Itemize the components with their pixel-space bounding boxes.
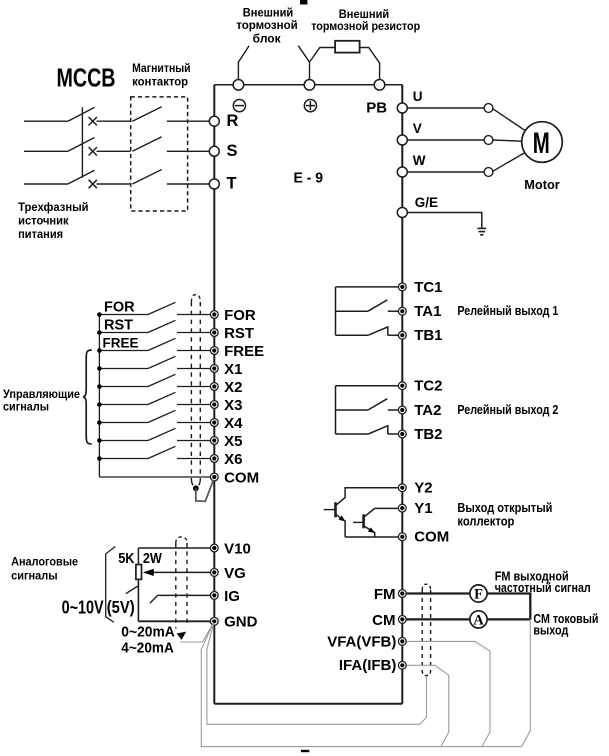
wire X4 row	[99, 422, 210, 424]
wire motor lead V diagonal	[493, 140, 522, 141]
svg-text:TA1: TA1	[414, 303, 441, 320]
brace control signals group	[83, 350, 92, 444]
terminal X3	[210, 401, 218, 409]
terminal T	[209, 179, 219, 189]
label FM output frequency signal	[495, 570, 591, 596]
svg-text:U: U	[413, 89, 423, 104]
wire X6 row	[99, 458, 210, 460]
label TC1 terminal	[414, 279, 442, 296]
svg-text:коллектор: коллектор	[457, 515, 514, 529]
svg-text:X6: X6	[224, 451, 242, 468]
wire A meter to CM	[402, 618, 530, 620]
transistor Q2 (Y1 output)	[353, 508, 398, 537]
label X3 terminal	[224, 397, 242, 414]
breaker pole R trip cross mark	[89, 117, 97, 125]
wire X3 row	[99, 404, 210, 406]
label FOR wire tag	[104, 299, 135, 315]
label RST terminal	[224, 325, 254, 342]
svg-text:FREE: FREE	[103, 335, 139, 350]
svg-text:X4: X4	[224, 415, 243, 432]
wire V10 to potentiometer	[138, 548, 210, 565]
label U	[413, 89, 423, 104]
wire brake switch blade at (+) terminal	[298, 46, 309, 80]
shield of output cable (dashed)	[422, 584, 430, 675]
arrow analog shield drain	[177, 632, 187, 640]
transistor Q1 (Y2 output)	[324, 488, 399, 537]
svg-text:RST: RST	[104, 317, 133, 333]
wire GND to analog shield drain	[180, 623, 213, 642]
terminal RST	[210, 329, 218, 337]
terminal S	[209, 146, 219, 156]
wire G/E ground lead	[402, 213, 482, 228]
svg-text:FM: FM	[374, 586, 396, 603]
svg-text:TB2: TB2	[414, 426, 442, 443]
svg-text:E - 9: E - 9	[294, 170, 324, 186]
wire phase R to terminal R	[167, 120, 209, 122]
relay relay 1 contacts wiring	[336, 287, 399, 335]
svg-text:S: S	[227, 142, 238, 160]
terminal TC2	[398, 382, 406, 390]
svg-text:IG: IG	[224, 588, 240, 605]
label Motor	[524, 177, 560, 192]
svg-text:5K: 5K	[118, 550, 134, 567]
wire right bus of inverter E-9	[401, 85, 403, 704]
svg-text:блок: блок	[253, 33, 281, 45]
switch X1 blade	[148, 356, 176, 368]
breaker mechanical tie bar	[81, 107, 83, 177]
breaker pole R blade	[68, 107, 95, 121]
svg-text:VFA(VFB): VFA(VFB)	[327, 633, 396, 650]
label CM current output	[533, 612, 598, 637]
svg-text:V: V	[413, 121, 422, 136]
svg-text:контактор: контактор	[132, 77, 188, 89]
wire top bus (DC link) of inverter	[214, 84, 402, 86]
symbol plus (+) polarity	[304, 100, 316, 112]
label X6 terminal	[224, 451, 242, 468]
terminal motor lead V circle	[484, 136, 493, 145]
svg-text:TC2: TC2	[414, 378, 442, 395]
label IFA(IFB) terminal	[339, 657, 397, 674]
wire X2 row	[99, 386, 210, 388]
svg-text:X3: X3	[224, 397, 242, 414]
mark small dash bottom center	[301, 750, 309, 752]
shield of control cable (dashed)	[191, 295, 200, 488]
svg-text:PB: PB	[366, 100, 387, 117]
terminal IG	[210, 592, 218, 600]
wire output W	[402, 171, 484, 173]
svg-text:Y2: Y2	[414, 480, 432, 497]
junction dot FREE on rail	[97, 348, 102, 353]
potentiometer 5K 2W body	[136, 565, 142, 580]
junction dot RST on rail	[97, 330, 102, 335]
terminal COM (open collector)	[398, 533, 406, 541]
svg-text:Релейный выход 1: Релейный выход 1	[457, 304, 558, 318]
svg-text:M: M	[533, 127, 550, 160]
svg-text:FOR: FOR	[104, 299, 135, 315]
terminal motor lead W circle	[484, 168, 493, 177]
terminal Y1 (open collector)	[398, 504, 406, 512]
meter A (ammeter)	[470, 611, 487, 629]
svg-text:источник: источник	[18, 215, 69, 227]
terminal R	[209, 116, 219, 126]
junction dot X3 on rail	[97, 402, 102, 407]
terminal TA1	[398, 307, 406, 315]
wire COM emitter line	[345, 536, 398, 538]
label X1 terminal	[224, 361, 242, 378]
terminal X4	[210, 419, 218, 427]
breaker pole S blade	[68, 138, 95, 152]
svg-text:A: A	[473, 613, 484, 629]
terminal TC1	[398, 283, 406, 291]
wire bottom edge of inverter box	[214, 703, 402, 705]
wire phase S input line	[24, 150, 68, 152]
svg-text:X1: X1	[224, 361, 242, 378]
svg-text:FREE: FREE	[224, 343, 264, 360]
junction dot X1 on rail	[97, 366, 102, 371]
wire RST row	[99, 332, 210, 334]
label VG terminal	[224, 565, 246, 582]
bracket analog group	[106, 547, 116, 623]
terminal (+) DC bus	[304, 80, 315, 91]
wire control shield drain to COM	[196, 480, 214, 502]
terminal Y2 (open collector)	[398, 484, 406, 492]
terminal VG	[210, 569, 218, 577]
switch FREE blade	[148, 338, 176, 350]
svg-text:F: F	[474, 587, 483, 603]
label 4~20mA	[121, 640, 174, 656]
wire inner return loop GND to output shield	[207, 623, 427, 725]
cropped mark top center	[300, 0, 307, 5]
svg-text:V10: V10	[224, 540, 251, 557]
wire phase R input line	[24, 120, 68, 122]
terminal COM (control)	[210, 473, 218, 481]
svg-text:W: W	[413, 153, 426, 168]
meter F (frequency)	[470, 585, 487, 603]
label FREE wire tag	[103, 335, 139, 350]
wire phase S to terminal S	[167, 150, 209, 152]
terminal motor lead U circle	[484, 104, 493, 113]
label RST wire tag	[104, 317, 133, 333]
terminal TA2	[398, 406, 406, 414]
svg-text:(5V): (5V)	[107, 597, 135, 617]
svg-text:TC1: TC1	[414, 279, 442, 296]
svg-text:MCCB: MCCB	[57, 65, 116, 93]
svg-text:Motor: Motor	[524, 177, 560, 192]
svg-text:X2: X2	[224, 379, 242, 396]
symbol minus (-) polarity	[233, 100, 245, 112]
breaker pole T trip cross mark	[89, 180, 97, 188]
terminal V on bus	[397, 135, 407, 145]
switch FOR blade	[148, 302, 176, 314]
label S	[227, 142, 238, 160]
shield of analog cable (dashed)	[176, 537, 187, 629]
svg-text:выход: выход	[533, 624, 568, 638]
label TB1 terminal	[414, 327, 442, 344]
label FREE terminal	[224, 343, 264, 360]
wire motor lead W diagonal	[493, 153, 525, 172]
svg-text:Y1: Y1	[414, 500, 432, 517]
svg-text:COM: COM	[224, 469, 259, 486]
junction dot FOR on rail	[97, 312, 102, 317]
terminal GND	[210, 617, 218, 625]
junction dot control shield drain	[193, 485, 199, 491]
label analog signals	[11, 557, 78, 583]
svg-text:G/E: G/E	[415, 195, 438, 210]
svg-text:RST: RST	[224, 325, 254, 342]
terminal X5	[210, 437, 218, 445]
wire outer return loop GND common	[201, 623, 521, 747]
terminal V10	[210, 544, 218, 552]
label relay output 1	[457, 304, 558, 318]
switch X6 blade	[148, 446, 176, 458]
label TC2 terminal	[414, 378, 442, 395]
wire phase T to terminal T	[167, 183, 209, 185]
wire output V	[402, 139, 484, 141]
label G/E	[415, 195, 438, 210]
wire phase T input line	[24, 183, 68, 185]
svg-text:питания: питания	[18, 229, 63, 241]
label TA1 terminal	[414, 303, 441, 320]
wire F meter to corner	[487, 594, 530, 620]
terminal FOR	[210, 311, 218, 319]
label COM terminal	[224, 469, 259, 486]
svg-text:0~10V: 0~10V	[62, 596, 105, 617]
svg-text:TB1: TB1	[414, 327, 442, 344]
wire selector blade near potentiometer	[126, 586, 138, 594]
svg-text:сигналы: сигналы	[3, 402, 49, 414]
terminal TB1	[398, 331, 406, 339]
junction dot X4 on rail	[97, 420, 102, 425]
label 2W	[143, 550, 163, 567]
label 0~20mA	[121, 624, 175, 640]
wire FREE row	[99, 350, 210, 352]
label FM terminal	[374, 586, 396, 603]
breaker pole S trip cross mark	[89, 147, 97, 155]
label VFA(VFB) terminal	[327, 633, 396, 650]
junction dot X5 on rail	[97, 438, 102, 443]
svg-text:CM: CM	[372, 612, 395, 629]
wire left bus of inverter E-9	[213, 85, 215, 704]
resistor brake resistor	[335, 41, 360, 53]
svg-text:TA2: TA2	[414, 402, 441, 419]
terminal G/E	[397, 208, 407, 218]
svg-text:Аналоговые: Аналоговые	[11, 557, 78, 569]
label GND terminal	[224, 614, 258, 631]
svg-text:Управляющие: Управляющие	[3, 389, 80, 401]
svg-text:R: R	[227, 112, 239, 130]
wire brake resistor left lead	[310, 48, 336, 63]
svg-text:2W: 2W	[143, 550, 163, 567]
svg-text:частотный сигнал: частотный сигнал	[495, 581, 591, 595]
label TB2 terminal	[414, 426, 442, 443]
label 5K	[118, 550, 134, 567]
label TA2 terminal	[414, 402, 441, 419]
switch X5 blade	[148, 428, 176, 440]
svg-text:тормозной резистор: тормозной резистор	[311, 21, 420, 33]
terminal TB2	[398, 430, 406, 438]
svg-text:GND: GND	[224, 614, 258, 631]
terminal PB brake	[374, 80, 385, 91]
label V10 terminal	[224, 540, 251, 557]
terminal FREE	[210, 347, 218, 355]
svg-text:VG: VG	[224, 565, 246, 582]
wire FOR row	[99, 314, 210, 316]
svg-text:Трехфазный: Трехфазный	[18, 202, 89, 214]
switch X4 blade	[148, 410, 176, 422]
contactor pole R blade	[132, 107, 161, 122]
svg-text:сигналы: сигналы	[11, 571, 58, 583]
terminal IFA(IFB)	[398, 661, 406, 669]
terminal U on bus	[397, 103, 407, 113]
wire phase R mid segment	[97, 120, 131, 122]
switch RST blade	[148, 320, 176, 332]
terminal (-) DC bus	[233, 80, 244, 91]
svg-text:Выход открытый: Выход открытый	[457, 501, 552, 515]
wire meter loop drain to bottom	[522, 619, 531, 746]
junction dot X6 on rail	[97, 456, 102, 461]
label IG terminal	[224, 588, 240, 605]
wire COM row to terminal COM	[99, 476, 210, 478]
svg-text:Магнитный: Магнитный	[132, 63, 191, 75]
svg-text:Внешний: Внешний	[243, 7, 294, 19]
terminal W on bus	[397, 167, 407, 177]
label Y1 terminal	[414, 500, 432, 517]
label R	[227, 112, 239, 130]
label X2 terminal	[224, 379, 242, 396]
terminal X2	[210, 383, 218, 391]
svg-text:0~20mA: 0~20mA	[121, 624, 175, 640]
svg-text:Внешний: Внешний	[339, 9, 390, 21]
wire IG input with open blade	[150, 595, 211, 603]
wire brake switch blade at (-) terminal	[238, 46, 249, 80]
label relay output 2	[457, 403, 558, 417]
switch X2 blade	[148, 374, 176, 386]
terminal FM	[398, 590, 406, 598]
terminal X6	[210, 455, 218, 463]
label COM terminal	[414, 529, 449, 546]
svg-text:COM: COM	[414, 529, 449, 546]
label V	[413, 121, 422, 136]
svg-text:Релейный выход 2: Релейный выход 2	[457, 403, 558, 417]
terminal X1	[210, 365, 218, 373]
label X4 terminal	[224, 415, 243, 432]
switch X3 blade	[148, 392, 176, 404]
label external brake resistor	[311, 9, 420, 33]
contactor pole T blade	[132, 170, 161, 185]
label Y2 terminal	[414, 480, 432, 497]
contactor pole S blade	[132, 137, 161, 152]
label E - 9 inverter	[294, 170, 324, 186]
wire X5 row	[99, 440, 210, 442]
label 0~10V (5V)	[62, 596, 135, 617]
wire common rail of control switches	[98, 315, 100, 478]
label FOR terminal	[224, 307, 256, 324]
label magnetic contactor	[132, 63, 191, 89]
label X5 terminal	[224, 433, 242, 450]
ground symbol	[477, 228, 486, 234]
label open collector output	[457, 501, 552, 529]
svg-text:X5: X5	[224, 433, 242, 450]
label MCCB breaker	[57, 65, 116, 93]
label external brake block	[236, 7, 298, 45]
wire VFA(VFB) feedback	[407, 641, 491, 746]
svg-text:IFA(IFB): IFA(IFB)	[339, 657, 397, 674]
wire output U	[402, 107, 484, 109]
motor M1	[522, 122, 563, 163]
wire motor lead U diagonal	[493, 109, 526, 131]
label T	[227, 175, 237, 193]
svg-text:FOR: FOR	[224, 307, 256, 324]
wire potentiometer bottom to GND	[138, 579, 210, 621]
label control signals	[3, 389, 80, 414]
label CM terminal	[372, 612, 395, 629]
svg-text:4~20mA: 4~20mA	[121, 640, 174, 656]
wire phase S mid segment	[97, 150, 131, 152]
junction dot X2 on rail	[97, 384, 102, 389]
breaker pole T blade	[68, 170, 95, 184]
relay relay 2 contacts wiring	[336, 386, 399, 434]
svg-text:T: T	[227, 175, 237, 193]
wire brake resistor right lead to PB	[360, 48, 380, 80]
contactor K1 dashed box	[131, 97, 188, 211]
wire VG wiper with arrow	[143, 569, 211, 576]
wire FM to frequency meter	[402, 592, 470, 594]
wire IFA(IFB) feedback	[407, 665, 449, 746]
wire X1 row	[99, 368, 210, 370]
wire phase T mid segment	[97, 183, 131, 185]
label W	[413, 153, 426, 168]
svg-text:тормозной: тормозной	[236, 20, 298, 32]
terminal CM	[398, 616, 406, 624]
label PB terminal	[366, 100, 387, 117]
label three-phase power source	[18, 202, 89, 241]
terminal VFA(VFB)	[398, 638, 406, 646]
